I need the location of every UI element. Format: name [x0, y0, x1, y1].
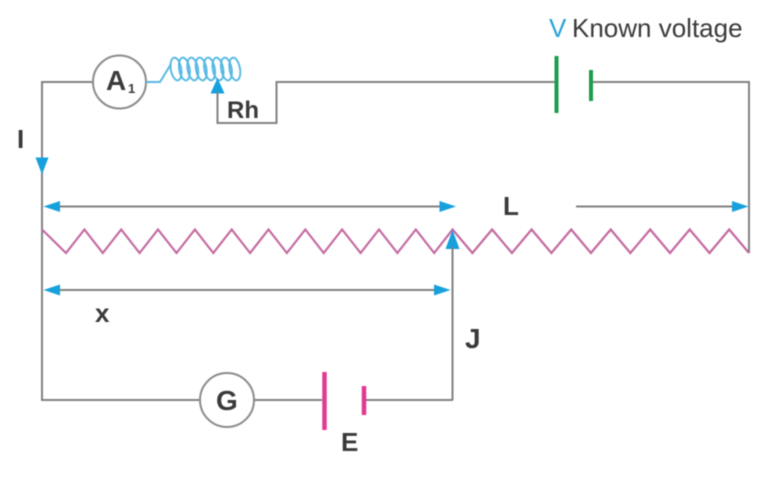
- arrowhead left of L line: [44, 201, 61, 212]
- svg-text:Known voltage: Known voltage: [572, 13, 743, 43]
- wire: top horizontal to battery V: [276, 81, 556, 83]
- svg-text:V: V: [549, 13, 567, 43]
- svg-text:Rh: Rh: [227, 97, 259, 124]
- wire: battery E to jockey wire: [366, 399, 453, 401]
- wire: left vertical from top wire to bottom wire: [41, 82, 43, 400]
- galvanometer G: [200, 373, 254, 427]
- svg-text:J: J: [465, 323, 481, 354]
- svg-text:I: I: [17, 124, 24, 154]
- arrowhead right of x line: [434, 285, 451, 296]
- wire: battery V to right side: [593, 81, 749, 83]
- ammeter A1: [93, 56, 146, 109]
- measurement line L left segment: [56, 206, 444, 208]
- svg-text:E: E: [341, 427, 358, 457]
- wire: wiper down-right-up step: [218, 82, 277, 123]
- wire: top-left horizontal to ammeter: [41, 81, 93, 83]
- battery E plate short: [362, 386, 367, 415]
- arrowhead right of L left segment: [440, 201, 457, 212]
- wire: right vertical down to potentiometer wire: [748, 81, 750, 253]
- wire: jockey vertical down: [452, 247, 454, 400]
- svg-text:L: L: [503, 191, 519, 221]
- rheostat coil: [169, 57, 242, 81]
- potentiometer resistance wire zigzag: [42, 230, 749, 254]
- wire: bottom from left to galvanometer: [41, 399, 200, 401]
- arrowhead left of x line: [44, 285, 61, 296]
- rheostat wiper arrow: [211, 78, 225, 94]
- wire: blue lead from ammeter to rheostat coil: [146, 64, 171, 82]
- battery V plate long: [555, 56, 559, 113]
- battery V plate short: [589, 70, 593, 101]
- measurement line x: [56, 289, 438, 291]
- arrowhead right end of L line: [732, 201, 749, 212]
- svg-text:A: A: [106, 65, 126, 96]
- wire: galvanometer to battery E: [254, 399, 322, 401]
- svg-text:x: x: [95, 298, 110, 328]
- battery E plate long: [322, 372, 327, 430]
- current arrow on left wire: [36, 158, 49, 175]
- svg-text:G: G: [216, 385, 238, 416]
- svg-text:1: 1: [128, 81, 135, 96]
- measurement line L right segment: [576, 206, 737, 208]
- jockey arrow: [446, 230, 460, 249]
